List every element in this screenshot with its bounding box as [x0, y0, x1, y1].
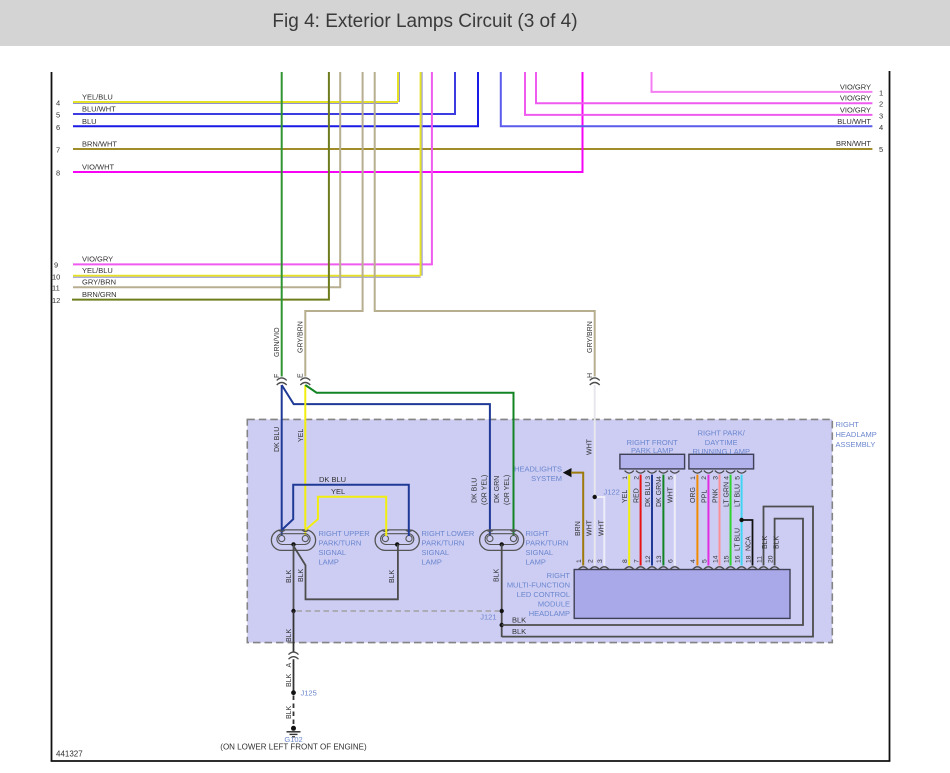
- svg-text:NCA: NCA: [745, 536, 752, 551]
- svg-text:BLK: BLK: [762, 535, 769, 549]
- svg-text:WHT: WHT: [587, 519, 594, 536]
- svg-text:5: 5: [879, 145, 883, 154]
- svg-text:BLK: BLK: [286, 569, 293, 583]
- svg-text:14: 14: [712, 555, 719, 563]
- svg-text:LAMP: LAMP: [319, 558, 339, 567]
- svg-text:RIGHT: RIGHT: [836, 420, 860, 429]
- svg-text:PPL: PPL: [701, 490, 708, 503]
- wire BLK J121 to module pin 20: [502, 519, 803, 625]
- svg-text:VIO/GRY: VIO/GRY: [840, 94, 871, 103]
- node on LT BLU wire: [739, 518, 743, 522]
- park lamp pin 1 wire YEL to module pin 8: [622, 471, 634, 566]
- wire BLK connector A to J125: [286, 659, 294, 693]
- svg-text:12: 12: [645, 555, 652, 563]
- svg-text:PNK: PNK: [712, 488, 719, 503]
- svg-text:GRN/VIO: GRN/VIO: [274, 327, 281, 357]
- wire BLU/WHT row 4 right: [501, 72, 883, 132]
- wire BLU/WHT row 5: [56, 72, 455, 120]
- svg-text:3: 3: [712, 476, 719, 480]
- connector E: [298, 373, 311, 385]
- svg-text:YEL/BLU: YEL/BLU: [82, 93, 113, 102]
- svg-text:5: 5: [668, 476, 675, 480]
- svg-text:4: 4: [723, 476, 730, 480]
- wire VIO/GRY row 3 right: [525, 72, 883, 120]
- svg-text:J122: J122: [604, 488, 620, 497]
- svg-text:DK BLU: DK BLU: [645, 482, 652, 507]
- svg-text:BLK: BLK: [286, 705, 293, 719]
- wire BLK J121 to module pin 11: [502, 507, 813, 637]
- svg-text:YEL: YEL: [298, 429, 305, 442]
- svg-text:BLU/WHT: BLU/WHT: [82, 105, 116, 114]
- svg-text:PARK/TURN: PARK/TURN: [422, 539, 465, 548]
- module pin 3 number: [597, 559, 604, 563]
- svg-text:10: 10: [52, 273, 60, 282]
- svg-text:SIGNAL: SIGNAL: [422, 548, 450, 557]
- svg-text:RIGHT PARK/: RIGHT PARK/: [698, 429, 746, 438]
- svg-text:SIGNAL: SIGNAL: [319, 548, 347, 557]
- svg-text:DK BLU: DK BLU: [319, 475, 346, 484]
- svg-text:PARK/TURN: PARK/TURN: [319, 539, 362, 548]
- svg-text:18: 18: [745, 555, 752, 563]
- node junction left: [291, 609, 295, 613]
- wire BLK right park/turn lamp ground: [494, 544, 502, 637]
- connector A: [286, 652, 299, 667]
- module pin 20 number: [767, 555, 774, 563]
- svg-text:J125: J125: [301, 689, 317, 698]
- svg-text:5: 5: [734, 476, 741, 480]
- svg-text:ORG: ORG: [690, 487, 697, 503]
- svg-text:BRN: BRN: [575, 521, 582, 536]
- svg-text:11: 11: [756, 556, 763, 563]
- node J122: [593, 488, 620, 500]
- connector F: [274, 374, 287, 385]
- svg-text:DK BLU: DK BLU: [274, 427, 281, 452]
- wire YEL from E to upper lamp: [298, 385, 306, 536]
- svg-text:YEL: YEL: [331, 487, 345, 496]
- svg-text:3: 3: [597, 559, 604, 563]
- svg-text:RIGHT LOWER: RIGHT LOWER: [422, 529, 475, 538]
- svg-text:GRY/BRN: GRY/BRN: [587, 321, 594, 353]
- svg-text:6: 6: [56, 123, 60, 132]
- svg-text:MULTI-FUNCTION: MULTI-FUNCTION: [507, 581, 570, 590]
- node J125: [291, 689, 317, 698]
- wire GRN/VIO to connector F: [274, 72, 282, 377]
- svg-text:4: 4: [879, 123, 883, 132]
- svg-text:(OR YEL): (OR YEL): [504, 475, 511, 505]
- svg-text:DK BLU: DK BLU: [472, 478, 479, 503]
- svg-text:3: 3: [879, 111, 883, 120]
- svg-text:HEADLIGHTS: HEADLIGHTS: [514, 465, 562, 474]
- svg-text:7: 7: [633, 559, 640, 563]
- svg-text:LAMP: LAMP: [526, 558, 546, 567]
- svg-text:YEL: YEL: [622, 490, 629, 503]
- park lamp pin 5 wire WHT to module pin 6: [668, 471, 680, 566]
- figure number: [56, 750, 83, 759]
- svg-text:VIO/GRY: VIO/GRY: [840, 105, 871, 114]
- wire BRN/GRN row 12: [52, 72, 329, 305]
- svg-text:H: H: [587, 373, 594, 378]
- svg-text:J121: J121: [480, 613, 496, 622]
- svg-text:RIGHT: RIGHT: [526, 529, 550, 538]
- svg-text:8: 8: [56, 169, 60, 178]
- svg-text:20: 20: [767, 555, 774, 563]
- svg-text:PARK LAMP: PARK LAMP: [631, 446, 673, 455]
- second LT BLU label: [734, 528, 741, 551]
- svg-text:DK GRN: DK GRN: [494, 476, 501, 503]
- module pin 2 number: [588, 559, 595, 563]
- svg-text:LT BLU: LT BLU: [734, 528, 741, 551]
- wire BLU row 6: [56, 72, 478, 132]
- svg-text:E: E: [298, 373, 305, 378]
- svg-text:BLK: BLK: [512, 616, 526, 625]
- wire WHT from H to module pin 2: [587, 385, 595, 566]
- right headlamp assembly box: [247, 419, 876, 642]
- wire DK BLU upper lamp to lower lamp: [282, 475, 409, 536]
- wire DK BLU from F to right park/turn lamp: [282, 385, 490, 536]
- running lamp pin 2 wire PPL to module pin 5: [701, 471, 713, 566]
- wire DK BLU from F to upper lamp: [274, 385, 282, 536]
- svg-text:F: F: [274, 374, 281, 378]
- svg-text:RIGHT UPPER: RIGHT UPPER: [319, 529, 371, 538]
- wire GRY/BRN row 11: [52, 72, 340, 293]
- wire BLK lower lamp ground loop: [294, 544, 398, 599]
- running lamp pin 5 wire LT BLU to module pin 16: [734, 471, 746, 566]
- wire YEL upper lamp to lower lamp: [305, 487, 386, 536]
- svg-text:BLK: BLK: [286, 628, 293, 642]
- junction dashed link J121: [297, 610, 500, 612]
- svg-text:1: 1: [622, 476, 629, 480]
- svg-text:16: 16: [734, 555, 741, 563]
- svg-text:BLK: BLK: [389, 569, 396, 583]
- svg-text:12: 12: [52, 296, 60, 305]
- svg-text:VIO/GRY: VIO/GRY: [82, 255, 113, 264]
- running lamp pin 4 wire LT GRN to module pin 15: [723, 471, 735, 566]
- lamp right upper park/turn signal: [271, 529, 370, 567]
- wire YEL/BLU row 10: [52, 72, 422, 282]
- svg-text:RIGHT: RIGHT: [547, 571, 571, 580]
- svg-text:RUNNING LAMP: RUNNING LAMP: [692, 447, 750, 456]
- svg-text:4: 4: [690, 559, 697, 563]
- svg-text:1: 1: [576, 559, 583, 563]
- wire BLK junction to connector A: [286, 611, 294, 652]
- lamp right lower park/turn signal: [375, 529, 475, 567]
- svg-text:(ON LOWER LEFT FRONT OF ENGINE: (ON LOWER LEFT FRONT OF ENGINE): [220, 743, 367, 752]
- svg-text:2: 2: [701, 476, 708, 480]
- svg-text:LT GRN: LT GRN: [723, 482, 730, 507]
- svg-text:BLU: BLU: [82, 117, 97, 126]
- connector H: [587, 373, 600, 385]
- svg-text:BLK: BLK: [773, 535, 780, 549]
- svg-text:WHT: WHT: [587, 438, 594, 455]
- svg-text:SYSTEM: SYSTEM: [531, 474, 562, 483]
- wire NCA to module pin 18: [742, 520, 753, 566]
- right park daytime running lamp box: [689, 429, 754, 469]
- svg-text:BLK: BLK: [286, 673, 293, 687]
- svg-text:HEADLAMP: HEADLAMP: [529, 609, 570, 618]
- wire VIO/GRY row 9: [54, 72, 432, 270]
- wire BRN to module pin 1: [571, 473, 583, 566]
- svg-text:1: 1: [879, 88, 883, 97]
- svg-text:4: 4: [656, 476, 663, 480]
- wire VIO/GRY row 2 right: [536, 72, 883, 109]
- node J121: [480, 609, 504, 627]
- wire YEL/BLU row 4: [56, 72, 400, 108]
- svg-text:HEADLAMP: HEADLAMP: [836, 430, 877, 439]
- wire BRN/WHT row 7: [56, 139, 883, 155]
- svg-text:BLK: BLK: [494, 568, 501, 582]
- svg-text:LT BLU: LT BLU: [734, 484, 741, 507]
- svg-text:WHT: WHT: [598, 519, 605, 536]
- svg-text:DK GRN: DK GRN: [656, 480, 663, 507]
- module pin 1 number: [576, 559, 583, 563]
- svg-text:13: 13: [656, 555, 663, 563]
- svg-text:5: 5: [701, 559, 708, 563]
- park lamp pin 2 wire RED to module pin 7: [633, 471, 645, 566]
- headlights system arrow: [514, 465, 571, 484]
- svg-text:GRY/BRN: GRY/BRN: [298, 321, 305, 353]
- svg-text:15: 15: [723, 555, 730, 563]
- running lamp pin 3 wire PNK to module pin 14: [712, 471, 724, 566]
- svg-text:VIO/GRY: VIO/GRY: [840, 82, 871, 91]
- park lamp pin 4 wire DK GRN to module pin 13: [656, 471, 668, 566]
- svg-text:WHT: WHT: [668, 486, 675, 503]
- running lamp pin 1 wire ORG to module pin 4: [690, 471, 702, 566]
- svg-text:11: 11: [52, 284, 60, 293]
- svg-text:9: 9: [54, 261, 58, 270]
- svg-text:MODULE: MODULE: [538, 600, 570, 609]
- wire BLK upper lamp to junction: [286, 544, 294, 611]
- svg-text:(OR YEL): (OR YEL): [482, 475, 489, 505]
- svg-text:BRN/WHT: BRN/WHT: [82, 140, 117, 149]
- svg-text:6: 6: [668, 559, 675, 563]
- svg-text:PARK/TURN: PARK/TURN: [526, 539, 569, 548]
- svg-text:YEL/BLU: YEL/BLU: [82, 266, 113, 275]
- svg-text:BRN/WHT: BRN/WHT: [836, 139, 871, 148]
- svg-text:BLK: BLK: [298, 568, 305, 582]
- wire DK GRN from E to right park/turn lamp: [305, 385, 513, 536]
- svg-text:3: 3: [645, 476, 652, 480]
- svg-text:A: A: [286, 663, 293, 668]
- lamp right park/turn signal: [480, 529, 569, 567]
- svg-text:7: 7: [56, 146, 60, 155]
- wire VIO/WHT row 8: [56, 72, 583, 178]
- module pin 11 number: [756, 556, 763, 563]
- park lamp pin 3 wire DK BLU to module pin 12: [645, 471, 657, 566]
- svg-text:2: 2: [588, 559, 595, 563]
- svg-text:BLU/WHT: BLU/WHT: [837, 117, 871, 126]
- svg-text:LED CONTROL: LED CONTROL: [517, 590, 570, 599]
- svg-text:SIGNAL: SIGNAL: [526, 548, 554, 557]
- svg-text:BLK: BLK: [512, 627, 526, 636]
- svg-text:LAMP: LAMP: [422, 558, 442, 567]
- right front park lamp box: [620, 438, 685, 469]
- wire GRY/BRN to connector H: [375, 72, 595, 377]
- svg-text:VIO/WHT: VIO/WHT: [82, 163, 114, 172]
- wire GRY/BRN to connector E: [298, 72, 363, 377]
- svg-text:8: 8: [622, 559, 629, 563]
- svg-text:4: 4: [56, 99, 60, 108]
- header bar: [0, 0, 950, 46]
- module right multi-function LED control headlamp: [507, 567, 790, 619]
- svg-text:2: 2: [633, 476, 640, 480]
- svg-text:GRY/BRN: GRY/BRN: [82, 278, 116, 287]
- svg-text:5: 5: [56, 111, 60, 120]
- wire BLK J125 to ground: [286, 696, 294, 727]
- wire WHT J122 to module pin 3: [595, 497, 606, 566]
- svg-text:BRN/GRN: BRN/GRN: [82, 290, 117, 299]
- svg-text:ASSEMBLY: ASSEMBLY: [836, 440, 876, 449]
- ground G102: [220, 726, 367, 752]
- svg-text:1: 1: [690, 476, 697, 480]
- svg-text:DAYTIME: DAYTIME: [705, 438, 738, 447]
- svg-text:2: 2: [879, 100, 883, 109]
- svg-text:441327: 441327: [56, 750, 83, 759]
- wire VIO/GRY row 1 right: [652, 72, 884, 97]
- svg-text:RED: RED: [633, 488, 640, 503]
